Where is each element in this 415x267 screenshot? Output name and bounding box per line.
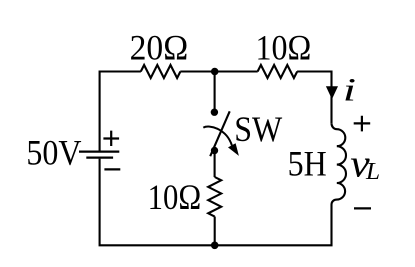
svg-text:5H: 5H xyxy=(288,145,327,184)
plus sign (battery polarity) xyxy=(103,131,119,146)
minus sign (inductor v_L polarity) xyxy=(354,207,371,209)
wire left-bottom (battery to bottom-left corner) xyxy=(100,159,215,246)
wire right-bottom (inductor to bottom-right corner) xyxy=(215,204,332,245)
svg-text:i: i xyxy=(343,71,356,108)
svg-text:SW: SW xyxy=(234,110,283,149)
node dot bottom (junction of middle branch) xyxy=(211,242,219,250)
resistor R 20ohm zigzag xyxy=(141,65,181,78)
switch SW blade xyxy=(210,111,230,156)
battery 50V plates xyxy=(79,152,119,158)
inductor L 5H coil xyxy=(332,123,347,204)
wire middle branch (switch to resistor) xyxy=(214,151,216,178)
plus sign (inductor v_L polarity) xyxy=(354,116,371,132)
minus sign (battery polarity) xyxy=(104,168,120,170)
current arrow i (filled triangle on right wire) xyxy=(326,86,338,99)
svg-text:L: L xyxy=(365,158,380,184)
wire left-top (top-left corner) xyxy=(100,72,141,151)
wire top-right corner down to inductor xyxy=(297,72,331,124)
svg-text:10Ω: 10Ω xyxy=(256,29,312,68)
resistor R 10ohm top-right zigzag xyxy=(258,65,298,78)
svg-text:10Ω: 10Ω xyxy=(148,178,202,218)
resistor R 10ohm middle vertical zigzag xyxy=(208,177,221,217)
switch SW arrowhead xyxy=(228,143,239,156)
wire middle branch bottom (resistor to bottom node) xyxy=(214,217,216,246)
switch SW bottom terminal dot xyxy=(211,147,218,154)
wire middle branch top (node to switch) xyxy=(214,72,216,113)
switch SW closing arc arrow xyxy=(203,127,232,146)
svg-text:20Ω: 20Ω xyxy=(130,28,189,68)
node dot top (junction of middle branch) xyxy=(211,68,219,76)
svg-text:50V: 50V xyxy=(26,134,81,173)
switch SW top terminal dot xyxy=(211,109,218,116)
wire top-middle xyxy=(180,70,257,72)
